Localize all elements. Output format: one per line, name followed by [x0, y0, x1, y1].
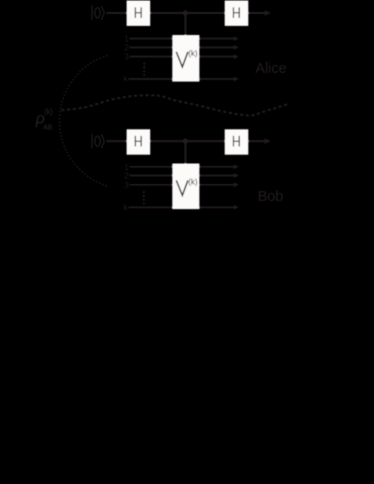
- wire register2 in Bob: [130, 175, 174, 177]
- svg-text:1: 1: [124, 163, 129, 172]
- arrowhead register3 Bob: [233, 182, 239, 187]
- wire register2 out Bob: [199, 175, 234, 177]
- svg-text:1: 1: [124, 35, 129, 44]
- gate H2 Alice: [225, 1, 249, 26]
- arrowhead ancilla B: [264, 138, 270, 144]
- gate H1 Bob: [127, 129, 151, 154]
- svg-text:3: 3: [124, 181, 129, 190]
- wire register2 in Alice: [130, 46, 174, 48]
- wire register3 out Bob: [199, 184, 234, 186]
- wire control vertical Alice: [184, 13, 186, 36]
- dashed wave separator: [62, 95, 290, 115]
- node ket0 Alice: [92, 6, 104, 21]
- gate H1 Alice: [127, 1, 151, 26]
- wire register3 in Bob: [130, 184, 174, 186]
- wire ancilla A left: [107, 12, 129, 14]
- svg-text:(k): (k): [188, 178, 198, 187]
- gate V(k) Bob: [172, 164, 199, 210]
- node ket0 Bob: [92, 134, 104, 149]
- gate H2 Bob: [225, 129, 249, 154]
- wire register1 in Bob: [130, 166, 174, 168]
- wire register1 out Alice: [199, 38, 234, 40]
- svg-text:(k): (k): [44, 109, 52, 116]
- wire register1 in Alice: [130, 38, 174, 40]
- svg-text:AB: AB: [43, 125, 53, 132]
- wire ancilla A mid: [149, 12, 226, 14]
- arrowhead ancilla A: [264, 10, 270, 16]
- arrowhead register2 Alice: [233, 45, 239, 50]
- dotted arc rho boundary: [59, 55, 107, 186]
- wire register3 out Alice: [199, 56, 234, 58]
- wire ancilla A right: [247, 12, 267, 14]
- control dot Bob: [183, 138, 188, 143]
- svg-text:Bob: Bob: [258, 189, 284, 205]
- svg-text:3: 3: [124, 53, 129, 62]
- wire ancilla B left: [107, 140, 129, 142]
- wire register2 out Alice: [199, 46, 234, 48]
- svg-text:2: 2: [124, 43, 129, 52]
- wire registerk out Alice: [199, 78, 234, 80]
- arrowhead register2 Bob: [233, 173, 239, 178]
- wire ancilla B right: [247, 140, 267, 142]
- svg-text:Alice: Alice: [255, 61, 286, 77]
- wire ancilla B mid: [149, 140, 226, 142]
- wire registerk in Bob: [128, 206, 173, 208]
- wire registerk in Alice: [128, 78, 173, 80]
- vertical dots Bob: [143, 191, 145, 205]
- wire register3 in Alice: [130, 56, 174, 58]
- arrowhead registerk Alice: [233, 77, 239, 82]
- vertical dots Alice: [143, 63, 145, 77]
- arrowhead register1 Bob: [233, 164, 239, 169]
- svg-text:(k): (k): [188, 49, 198, 58]
- svg-text:2: 2: [124, 172, 129, 181]
- arrowhead register1 Alice: [233, 36, 239, 41]
- label rho AB (k): [35, 109, 53, 132]
- gate V(k) Alice: [172, 35, 199, 82]
- wire control vertical Bob: [184, 141, 186, 164]
- arrowhead registerk Bob: [233, 205, 239, 210]
- wire register1 out Bob: [199, 166, 234, 168]
- arrowhead register3 Alice: [233, 54, 239, 59]
- wire registerk out Bob: [199, 206, 234, 208]
- control dot Alice: [183, 10, 188, 15]
